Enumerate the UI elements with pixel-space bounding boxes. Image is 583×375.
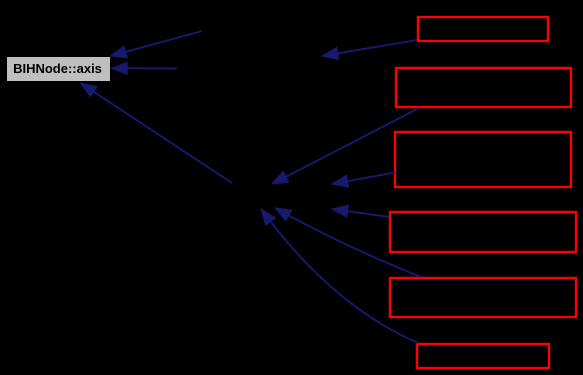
- edge E7: red box 4 to invisible middle node: [332, 205, 389, 217]
- red node box 1 (top right): [418, 17, 548, 41]
- node BIHNode::axis (grey box): [7, 57, 110, 81]
- red node box 6 (bottom right): [417, 344, 549, 368]
- edge E4: red box 1 to invisible top node: [322, 40, 417, 59]
- svg-text:BIHNode::axis: BIHNode::axis: [13, 61, 102, 76]
- edge E5: red box 2 to invisible middle node: [272, 108, 419, 184]
- red node box 5: [390, 278, 576, 317]
- red node box 2: [396, 68, 571, 107]
- edge E2: invisible node to BIHNode::axis (horizontal): [112, 62, 178, 74]
- edge E9: red box 5 to invisible middle node (gentle curve): [275, 208, 421, 277]
- red node box 3: [395, 132, 571, 187]
- edge E8: red box 6 to invisible middle node (long curve): [261, 209, 418, 343]
- edge E6: red box 3 to invisible middle node: [332, 173, 395, 188]
- red node box 4: [390, 212, 576, 252]
- edge E3: invisible middle node to BIHNode::axis (long diagonal): [81, 83, 233, 183]
- edge E1: invisible node to BIHNode::axis (upper): [111, 31, 203, 58]
